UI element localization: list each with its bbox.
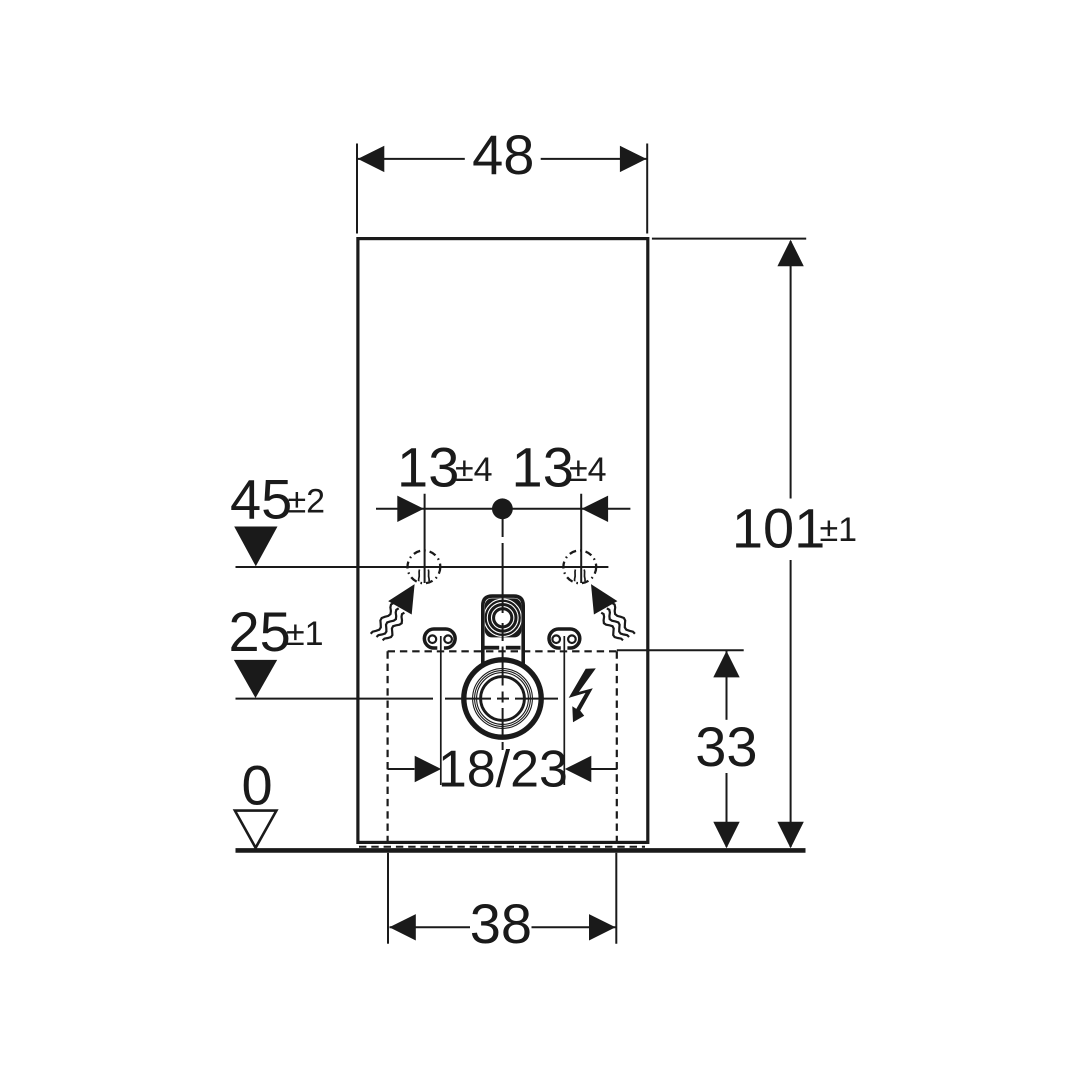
svg-text:13: 13 bbox=[512, 436, 574, 499]
drain axis horizontal (dash-dot) bbox=[445, 698, 558, 700]
water supply fitting outline (keyhole) bbox=[483, 596, 523, 666]
dashed mounting-plate rectangle top edge bbox=[388, 650, 617, 652]
dimension 101±1: top extension line bbox=[652, 238, 806, 240]
drain outlet: inner ring bbox=[481, 677, 525, 721]
dimension 13/13: center reference dot bbox=[492, 498, 513, 519]
left power socket bbox=[424, 629, 455, 648]
water supply fitting rings (white) bbox=[484, 599, 521, 636]
svg-text:±4: ±4 bbox=[569, 451, 607, 489]
dimension 13/13: left tick to anchor bbox=[424, 494, 426, 583]
svg-text:±1: ±1 bbox=[820, 511, 858, 549]
lightning bolt (electrical connection) bbox=[569, 668, 596, 722]
left anchor hatch marks bbox=[418, 570, 421, 582]
dimension 18/23: arrowhead left (pointing right) bbox=[415, 756, 442, 782]
svg-text:101: 101 bbox=[732, 496, 825, 559]
svg-text:45: 45 bbox=[230, 467, 292, 530]
dimension 33: extension line bbox=[617, 649, 744, 651]
centre axis vertical (dash-dot) bbox=[502, 515, 504, 750]
level marker triangle 0 (open) bbox=[235, 811, 277, 848]
dimension 18/23: dimension line right bbox=[591, 768, 617, 770]
panel outline (monolith module front view) bbox=[358, 239, 648, 843]
svg-text:±4: ±4 bbox=[455, 451, 493, 489]
dimension 48: extension line left bbox=[356, 144, 358, 234]
dimension 13/13: dimension line bbox=[376, 508, 630, 510]
dimension 18/23: arrowhead right (pointing left) bbox=[565, 756, 592, 782]
dimension 33: arrowhead bottom bbox=[713, 822, 739, 849]
dashed plinth line under panel bbox=[359, 846, 645, 848]
right heat wavy lines bbox=[612, 603, 635, 634]
svg-text:18/23: 18/23 bbox=[438, 740, 568, 798]
drain outlet: outer ring bbox=[464, 660, 541, 737]
svg-text:0: 0 bbox=[242, 754, 273, 817]
dimension 38: arrowhead left bbox=[389, 914, 416, 940]
left socket drop line bbox=[440, 636, 442, 785]
dimension 48: arrowhead right bbox=[620, 146, 647, 172]
dimension 38: arrowhead right bbox=[589, 914, 616, 940]
right heat arrow triangle bbox=[591, 584, 617, 614]
level line 25 bbox=[236, 698, 434, 700]
dimension 101±1: arrowhead top bbox=[777, 240, 803, 267]
left heat wavy lines bbox=[371, 603, 394, 634]
svg-text:48: 48 bbox=[472, 123, 534, 186]
level line 45 bbox=[236, 566, 609, 568]
dimension 101±1: dimension line bbox=[790, 241, 792, 499]
right anchor dashed circle bbox=[563, 551, 596, 584]
dimension 48: extension line right bbox=[646, 144, 648, 234]
dimension 38: extension line right bbox=[615, 853, 617, 944]
left heat arrow triangle bbox=[388, 584, 414, 614]
floor / ground line bbox=[236, 848, 806, 853]
drain outlet: thin rings bbox=[473, 669, 533, 729]
dimension 38: extension line left bbox=[387, 853, 389, 944]
dimension 101±1: arrowhead bottom bbox=[777, 822, 803, 849]
svg-text:33: 33 bbox=[695, 715, 757, 778]
level marker triangle 45 bbox=[234, 527, 277, 567]
dimension 38: dimension line bbox=[390, 926, 471, 928]
dimension 13/13: right tick to anchor bbox=[580, 494, 582, 583]
svg-text:13: 13 bbox=[397, 436, 459, 499]
level marker triangle 25 bbox=[234, 660, 277, 698]
dashed mounting-plate rectangle left edge bbox=[387, 651, 389, 846]
dimension 13/13: arrowhead right bbox=[582, 496, 609, 522]
dimension 33: arrowhead top bbox=[713, 651, 739, 678]
dimension 18/23: dimension line left bbox=[388, 768, 415, 770]
svg-text:±2: ±2 bbox=[288, 483, 326, 521]
dimension 48: arrowhead left bbox=[358, 146, 385, 172]
right socket drop line bbox=[563, 636, 565, 785]
svg-text:±1: ±1 bbox=[286, 615, 324, 653]
svg-text:38: 38 bbox=[470, 892, 532, 955]
right power socket bbox=[549, 629, 580, 648]
svg-text:25: 25 bbox=[229, 600, 291, 663]
dashed mounting-plate rectangle right edge bbox=[616, 651, 618, 846]
dimension 48: dimension line bbox=[357, 158, 465, 160]
water supply fitting collar bars bbox=[484, 646, 499, 650]
dimension 13/13: arrowhead left bbox=[397, 496, 424, 522]
dimension 33: dimension line bbox=[726, 651, 728, 720]
right anchor hatch marks bbox=[574, 570, 577, 582]
left anchor dashed circle bbox=[408, 551, 441, 584]
